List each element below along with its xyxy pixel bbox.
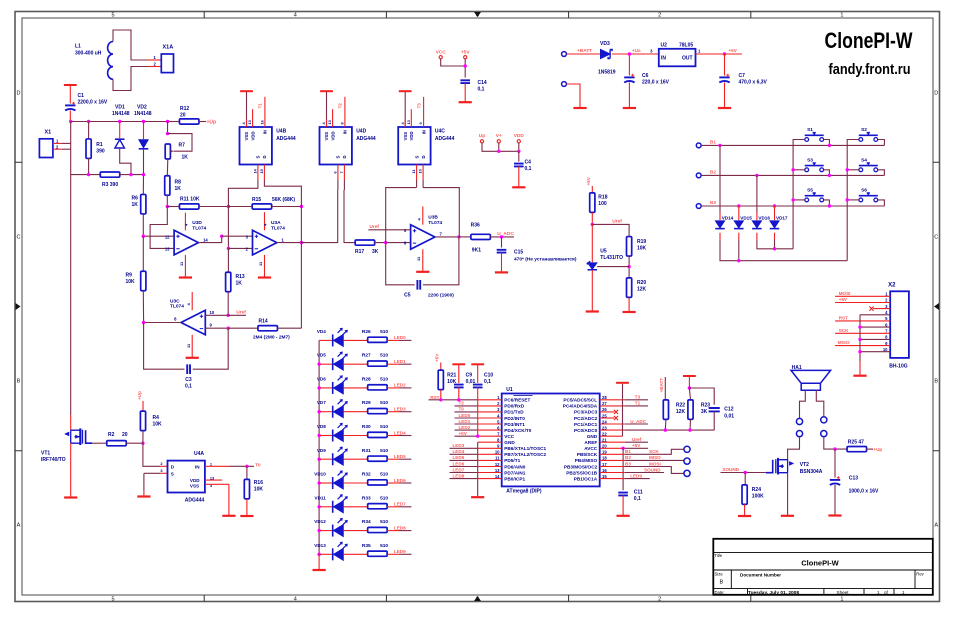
svg-text:U3B: U3B — [428, 215, 438, 221]
wire R29 to net — [399, 411, 411, 413]
wire +BATT to R22 — [664, 377, 666, 400]
svg-text:Rev: Rev — [916, 571, 924, 576]
pin stub X1 2 — [53, 148, 62, 150]
wire R22 to bus — [664, 419, 667, 430]
svg-text:PD3/INT1: PD3/INT1 — [504, 422, 525, 427]
svg-text:VDD: VDD — [250, 131, 255, 140]
svg-text:VSS: VSS — [190, 483, 199, 488]
svg-text:+5V: +5V — [459, 431, 468, 436]
wire node down to U3A -in — [227, 207, 229, 249]
title block inner lines — [713, 553, 933, 595]
svg-text:C6: C6 — [642, 73, 649, 79]
pin stub U1 pin13 — [478, 472, 502, 474]
wire U4C D to out node — [423, 188, 459, 237]
svg-text:510: 510 — [380, 400, 388, 406]
pin stub U4B IN — [264, 97, 266, 127]
svg-text:510: 510 — [380, 353, 388, 359]
ground C13 — [828, 514, 841, 516]
wire U1 pin5 — [455, 423, 478, 425]
wire VD11 to R33 — [343, 506, 368, 508]
wire R34 to net — [399, 530, 411, 532]
wire R34 lead — [387, 530, 399, 532]
wire bus to VD13 — [319, 553, 332, 555]
wire +Up to R4 — [142, 401, 144, 411]
svg-text:510: 510 — [380, 424, 388, 430]
pin circle Up — [480, 140, 483, 143]
svg-text:B: B — [17, 379, 21, 385]
svg-text:R2: R2 — [108, 432, 115, 438]
junction — [497, 150, 500, 153]
VD16 anode stub — [756, 212, 758, 220]
junction — [245, 465, 248, 468]
pin stub U4C VDD — [410, 109, 412, 127]
wire X2 pin10 — [860, 351, 890, 353]
wire C15 to ground — [501, 253, 503, 272]
wire V+ down — [498, 143, 500, 151]
svg-text:S: S — [336, 156, 341, 159]
stub X2 pin3 — [873, 308, 890, 310]
wire node to R24 — [744, 473, 746, 485]
pin circle speaker R1 — [821, 417, 827, 423]
VD17 cathode stub — [774, 233, 776, 240]
svg-text:V+: V+ — [496, 133, 502, 139]
svg-text:PD5/T1: PD5/T1 — [504, 458, 520, 463]
pin circle +BATT — [562, 52, 567, 57]
svg-text:2200 (1900): 2200 (1900) — [428, 293, 454, 299]
svg-text:3K: 3K — [372, 249, 379, 255]
pin stub U1 pin19 — [600, 453, 625, 455]
svg-text:BSN304A: BSN304A — [800, 469, 823, 475]
svg-text:C12: C12 — [724, 407, 733, 413]
wire X2 pin8 — [860, 338, 890, 340]
svg-text:470,0 x 6,3V: 470,0 x 6,3V — [739, 80, 768, 86]
pin stub U1 pin16 — [600, 472, 625, 474]
svg-text:IN: IN — [661, 56, 666, 62]
wire pin16 SOUND — [625, 472, 664, 474]
wire R11 to R15 node — [199, 206, 229, 208]
junction — [723, 52, 726, 55]
junction — [142, 235, 145, 238]
wire S3 left lead — [793, 169, 805, 171]
svg-text:PB1/OC1A: PB1/OC1A — [574, 476, 598, 481]
push button S3 — [805, 168, 809, 172]
wire +5V down to C14 — [464, 59, 466, 78]
junction LED bus VD10 — [317, 481, 320, 484]
LED VD13 — [332, 548, 334, 560]
wire VD7 to R29 — [343, 411, 368, 413]
resistor R21 — [438, 370, 443, 390]
junction LED bus VD8 — [317, 434, 320, 437]
wire U2 out to +5V wire — [696, 53, 743, 55]
svg-text:SCK: SCK — [649, 449, 659, 454]
svg-text:PC0/ADC0: PC0/ADC0 — [574, 428, 598, 433]
wire plug L to VT2 drain — [788, 437, 800, 460]
svg-text:VD17: VD17 — [776, 216, 788, 221]
svg-text:TL074: TL074 — [271, 225, 285, 231]
junction — [858, 350, 861, 353]
pin stub U4D S — [337, 165, 339, 181]
svg-text:3: 3 — [476, 13, 479, 19]
svg-text:R7: R7 — [179, 143, 186, 149]
wire to C6 — [628, 54, 630, 76]
wire R31 to net — [399, 458, 411, 460]
junction — [737, 204, 740, 207]
pin stub X1A 1 — [148, 59, 161, 61]
junction — [718, 144, 721, 147]
svg-text:LED3: LED3 — [453, 443, 465, 448]
wire LED bus to ground — [318, 554, 320, 569]
wire R16 to ground — [246, 499, 248, 516]
wire Uref to U3B +in — [368, 229, 410, 231]
pin stub U4B D — [263, 165, 265, 181]
wire C9 to RST row — [458, 387, 460, 399]
U3A pin4 stub — [264, 212, 266, 230]
wire to C4 — [518, 151, 520, 161]
svg-text:10K: 10K — [637, 246, 647, 252]
pin circle speaker L1 — [796, 418, 802, 424]
svg-text:PD4/XCK/T0: PD4/XCK/T0 — [504, 428, 531, 433]
svg-text:LED4: LED4 — [453, 449, 465, 454]
svg-text:Uref: Uref — [236, 309, 246, 315]
ground U5 — [586, 310, 599, 312]
analog switch U4A ADG444 — [168, 461, 205, 493]
svg-text:R30: R30 — [362, 424, 371, 430]
svg-text:C: C — [934, 235, 938, 241]
wire loop top-left to U4C S — [386, 188, 417, 243]
junction — [300, 205, 303, 208]
svg-text:B1: B1 — [710, 140, 716, 145]
svg-text:LED8: LED8 — [453, 473, 465, 478]
push button S4 — [859, 168, 863, 172]
pin stub U1 pin17 — [600, 466, 625, 468]
junction — [142, 321, 145, 324]
svg-text:1K: 1K — [175, 186, 182, 192]
svg-text:R36: R36 — [471, 223, 480, 229]
wire row B1 — [701, 144, 884, 146]
wire R32 to net — [399, 482, 411, 484]
resistor R34 — [368, 527, 388, 532]
ground C7 — [718, 107, 731, 109]
wire VCC to +5V node — [441, 59, 466, 66]
wire X1 pin2 — [62, 148, 71, 150]
diode VD1 — [115, 140, 125, 148]
wire R4 to node — [142, 431, 144, 444]
svg-text:0,1: 0,1 — [185, 383, 192, 389]
svg-text:C1: C1 — [78, 93, 85, 99]
pin stub U1 pin28 — [600, 399, 625, 401]
svg-text:D: D — [342, 155, 347, 158]
svg-text:10K: 10K — [126, 279, 136, 285]
wire R7 wiper loop — [168, 134, 193, 152]
junction — [220, 235, 223, 238]
wire C13 to ground — [834, 485, 836, 515]
svg-text:R34: R34 — [362, 519, 371, 525]
wire C10 to +5V row — [477, 387, 479, 436]
MCU U1 ATmega8 box — [502, 394, 600, 487]
svg-text:PC5/ADC5/SCL: PC5/ADC5/SCL — [563, 398, 597, 403]
wire X1 pin1 — [62, 142, 71, 144]
svg-text:U4B: U4B — [276, 129, 286, 135]
wire speaker right lead — [816, 390, 824, 417]
svg-text:R1: R1 — [96, 142, 103, 148]
pin stub U1 pin18 — [600, 459, 625, 461]
svg-text:100K: 100K — [752, 494, 764, 500]
junction — [621, 447, 624, 450]
wire S2 right to B1 — [878, 140, 885, 146]
svg-text:B2: B2 — [625, 455, 631, 460]
diode VD16 — [752, 221, 762, 228]
wire pin20 +5V — [625, 447, 648, 449]
svg-text:9K1: 9K1 — [472, 247, 481, 253]
resistor R20 — [627, 278, 632, 298]
svg-text:C13: C13 — [849, 476, 858, 482]
wire R1 to low bus — [88, 158, 90, 175]
resistor R28 — [368, 385, 388, 390]
svg-text:TL074: TL074 — [192, 225, 206, 231]
resistor R14 — [258, 326, 278, 331]
R7 wiper arrow — [171, 150, 174, 153]
wire node to U4A D — [143, 443, 161, 466]
svg-text:SOUND: SOUND — [644, 467, 661, 472]
wire to U3A -in — [228, 247, 252, 249]
svg-text:0,1: 0,1 — [634, 496, 641, 502]
wire U4A S left — [144, 472, 161, 474]
svg-text:2: 2 — [658, 13, 661, 19]
svg-text:PB4/MISO: PB4/MISO — [575, 458, 598, 463]
wire R15 to right node — [272, 206, 302, 208]
wire SOUND to VT2 gate — [721, 472, 767, 474]
svg-text:IN: IN — [263, 130, 268, 134]
power bar U4D VSS — [320, 90, 333, 92]
wire +in to Uref stub — [228, 314, 246, 316]
VT1 drain stub — [70, 415, 72, 430]
wire bus to VD12 — [319, 530, 332, 532]
connector X2 BH-10G — [890, 291, 909, 358]
pin stub U1 pin9 — [478, 447, 502, 449]
pin stub U4A VSS pin4 — [205, 483, 229, 485]
wire VD14 to bottom bus — [720, 240, 847, 261]
wire U1 pin2 — [455, 405, 478, 407]
svg-text:12: 12 — [165, 234, 170, 239]
wire X2 column to ground — [859, 361, 861, 375]
junction — [142, 173, 145, 176]
wire TL431 to R19/R20 node — [597, 266, 629, 268]
svg-text:PD2/INT0: PD2/INT0 — [504, 416, 525, 421]
capacitor C9 — [454, 385, 464, 388]
svg-text:U1: U1 — [506, 387, 513, 393]
svg-text:+Up: +Up — [137, 391, 142, 400]
pin circle speaker R2 — [821, 431, 827, 437]
wire U1 pin11 — [450, 459, 478, 461]
wire pin23 divider bus — [625, 429, 715, 431]
svg-text:D: D — [421, 155, 426, 158]
svg-text:0,1: 0,1 — [478, 87, 485, 93]
wire R30 to net — [399, 435, 411, 437]
resistor R23 — [688, 400, 693, 420]
svg-text:ADG444: ADG444 — [435, 136, 455, 142]
wire bus to VD5 — [319, 363, 332, 365]
wire power bar to C1 — [69, 85, 71, 104]
wire node to R11 — [167, 206, 179, 208]
junction — [118, 120, 121, 123]
svg-text:R31: R31 — [362, 448, 371, 454]
wire VD12 to R34 — [343, 530, 368, 532]
svg-text:+Up: +Up — [207, 120, 217, 126]
svg-text:AVCC: AVCC — [584, 446, 598, 451]
wire S4 left lead — [847, 169, 859, 171]
resistor R7 — [165, 144, 170, 159]
resistor R16 — [244, 479, 249, 499]
wire AVCC to C11 — [622, 448, 624, 490]
wire S4 right to B2 — [878, 170, 885, 176]
capacitor C14 — [460, 80, 470, 83]
svg-text:TL074: TL074 — [170, 304, 184, 310]
resistor R27 — [368, 361, 388, 366]
svg-text:MOSI: MOSI — [649, 461, 661, 466]
capacitor C6 — [624, 76, 634, 78]
resistor R12 — [179, 119, 199, 124]
power bar pin22 — [616, 382, 629, 384]
svg-text:PC4/ADC4/SDA: PC4/ADC4/SDA — [563, 404, 598, 409]
ground R20 — [623, 311, 636, 313]
wire VD15 to bottom bus — [738, 240, 740, 261]
wire U4A S to ground — [143, 473, 145, 490]
svg-text:3K: 3K — [701, 409, 708, 415]
svg-text:AREF: AREF — [584, 440, 597, 445]
junction — [141, 442, 144, 445]
svg-text:L1: L1 — [75, 44, 81, 50]
svg-text:MISO: MISO — [649, 455, 661, 460]
wire X2 pin1 MOSI — [835, 295, 890, 297]
wire left vertical X1/VT1 — [70, 122, 72, 416]
resistor R26 — [368, 337, 388, 342]
svg-text:VT1: VT1 — [41, 451, 50, 457]
resistor R8 — [165, 176, 170, 196]
wire U4B S to R15 node — [228, 180, 258, 207]
wire R13 to U3C +in line — [227, 292, 229, 316]
diode VD17 — [770, 221, 780, 228]
svg-text:IN: IN — [421, 130, 426, 134]
wire U3A out — [277, 242, 302, 244]
svg-text:Document Number: Document Number — [740, 572, 781, 577]
svg-text:VT2: VT2 — [800, 462, 809, 468]
wire U4C D down — [422, 180, 424, 188]
analog switch U4D ADG444 — [320, 127, 352, 165]
resistor R35 — [368, 551, 388, 556]
svg-text:Sheet: Sheet — [837, 590, 850, 595]
wire L1 top to X1A pin1 — [113, 30, 158, 60]
svg-text:PC6/RESET: PC6/RESET — [504, 398, 530, 403]
wire pin21 Uref — [625, 441, 648, 443]
svg-text:+5V: +5V — [461, 49, 470, 55]
svg-text:C9: C9 — [466, 373, 473, 379]
pin stub U4A D — [160, 465, 167, 467]
svg-text:4: 4 — [294, 597, 297, 603]
junction — [227, 205, 230, 208]
power bar — [64, 84, 77, 86]
resistor R32 — [368, 480, 388, 485]
wire pin17 MOSI — [625, 467, 684, 474]
svg-text:3: 3 — [476, 597, 479, 603]
junction — [227, 314, 230, 317]
wire S3 right to B2 — [824, 170, 830, 176]
svg-text:C3: C3 — [185, 377, 192, 383]
junction — [627, 265, 630, 268]
capacitor C15 — [497, 250, 507, 253]
wire VT1 gate to R2 — [92, 442, 107, 444]
diode VD3 1N5819 (schottky) — [601, 49, 611, 58]
resistor R18 — [590, 193, 595, 213]
svg-text:S6: S6 — [861, 187, 867, 193]
resistor R9 — [141, 271, 146, 291]
wire VD2 node to R6 — [142, 175, 144, 195]
svg-text:C11: C11 — [634, 490, 643, 496]
svg-text:PB3/MOSI/OC2: PB3/MOSI/OC2 — [564, 464, 598, 469]
wire R28 lead — [387, 387, 399, 389]
svg-text:ClonePI-W: ClonePI-W — [825, 28, 913, 53]
wire plug R to R25 — [824, 437, 848, 449]
svg-text:A: A — [17, 523, 21, 529]
junction — [628, 52, 631, 55]
svg-text:R25 47: R25 47 — [848, 440, 864, 446]
wire X2 pin6 — [860, 326, 890, 328]
wire R33 lead — [387, 506, 399, 508]
svg-text:VDD: VDD — [514, 133, 525, 139]
svg-text:C7: C7 — [739, 73, 746, 79]
wire bus to VD11 — [319, 506, 332, 508]
svg-text:100: 100 — [598, 201, 607, 207]
resistor R22 — [663, 400, 668, 420]
pin stub U4C IN — [423, 97, 425, 127]
shunt reference U5 TL431 — [588, 263, 598, 270]
svg-text:B3: B3 — [710, 200, 716, 205]
wire U1 pin4 — [455, 417, 478, 419]
svg-text:20: 20 — [180, 113, 186, 119]
svg-text:S5: S5 — [807, 187, 813, 193]
svg-text:HA1: HA1 — [792, 365, 802, 371]
resistor R1 — [86, 139, 91, 159]
svg-text:R28: R28 — [362, 376, 371, 382]
wire R36 to U_ADC — [490, 236, 514, 238]
junction — [858, 325, 861, 328]
resistor R29 — [368, 409, 388, 414]
wire pin15 LED9 — [625, 478, 650, 480]
wire U1 pin3 — [455, 411, 478, 413]
ground VT1 — [64, 496, 77, 498]
svg-text:VSS: VSS — [244, 132, 249, 141]
wire R35 lead — [387, 553, 399, 555]
U1 RESET overline — [514, 394, 533, 396]
svg-text:X2: X2 — [888, 283, 896, 289]
U3B pin11 stub — [422, 249, 424, 271]
resistor R33 — [368, 504, 388, 509]
svg-text:GND: GND — [504, 440, 515, 445]
svg-text:PB7/XTAL2/TOSC2: PB7/XTAL2/TOSC2 — [504, 452, 546, 457]
svg-text:R6: R6 — [132, 196, 139, 202]
transistor VT1 IRF740 — [79, 428, 81, 445]
svg-text:LED8: LED8 — [394, 525, 406, 530]
ground U3D — [179, 276, 192, 278]
wire pin22 GND up — [622, 384, 624, 436]
pin stub X1A 2 — [148, 66, 161, 68]
svg-text:Uref: Uref — [612, 218, 622, 224]
junction — [439, 398, 442, 401]
connector X1 — [39, 139, 53, 158]
wire VDD down — [518, 143, 520, 151]
pin stub U4A IN — [205, 465, 229, 467]
wire R18 to Uref node — [591, 212, 593, 224]
wire +5V to R18 — [591, 186, 593, 193]
